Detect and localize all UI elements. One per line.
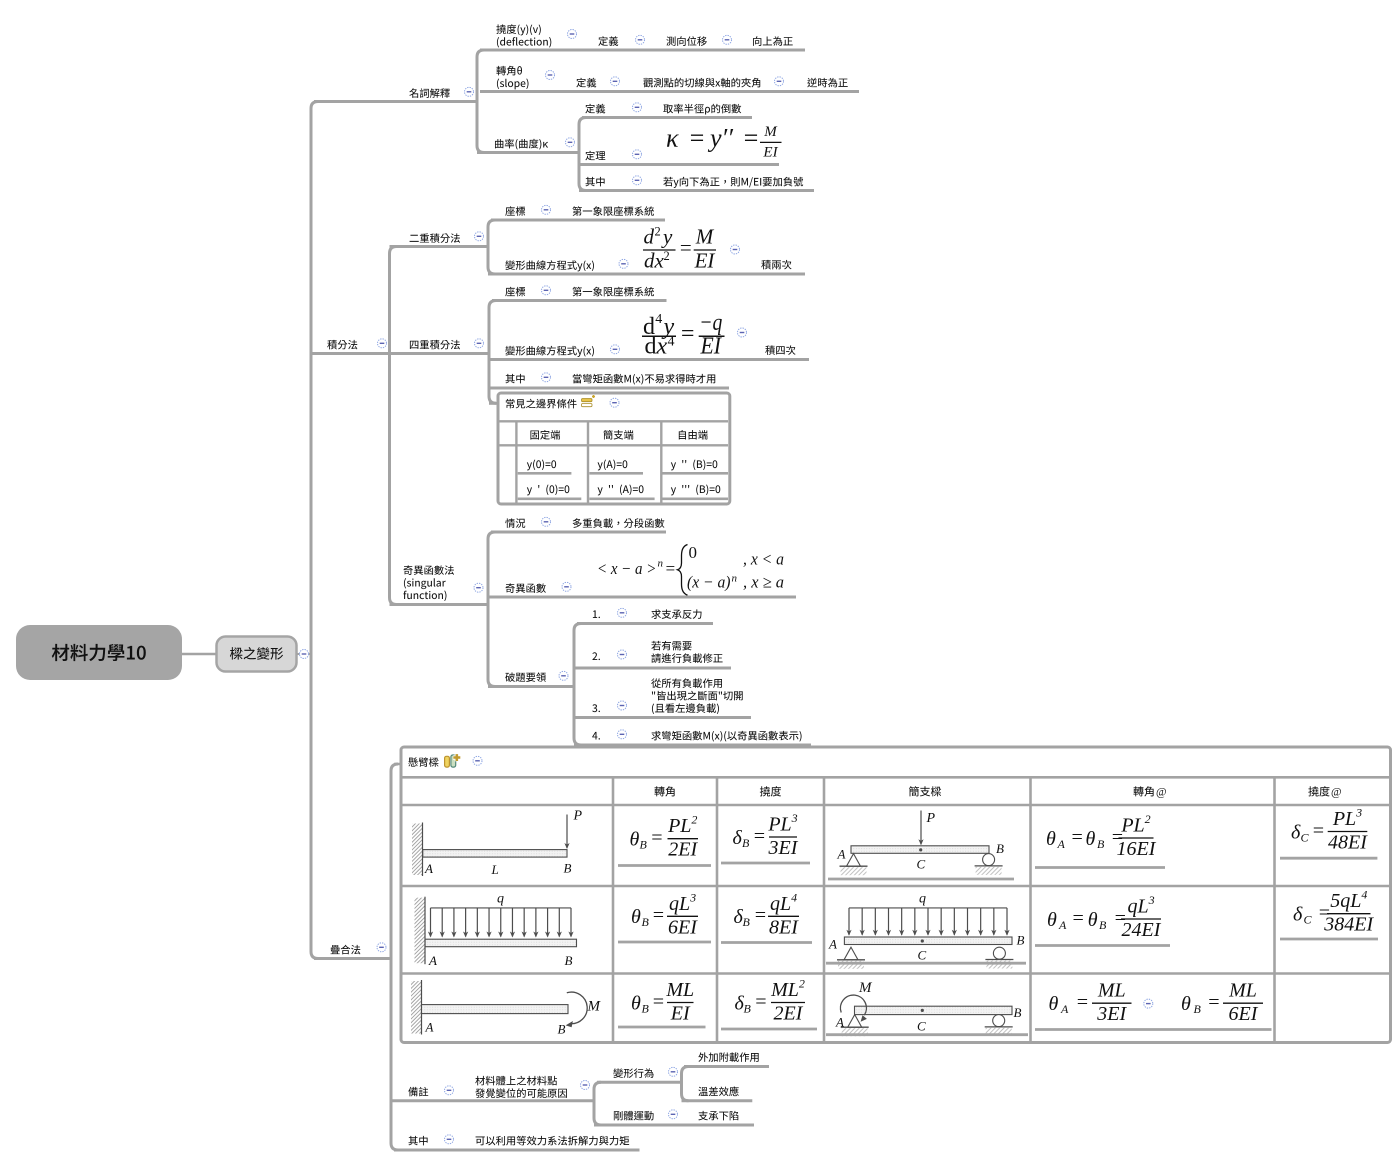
node y″(A)=0 [598,485,644,496]
wire underline ss-M row3 [826,1033,1028,1036]
svg-text:θ: θ [1049,993,1059,1015]
svg-text:B: B [1014,1005,1022,1020]
svg-text:24EI: 24EI [1122,919,1162,941]
collapse icon 座標2 [542,286,551,295]
node formula δB=ML²/2EI [735,977,806,1025]
collapse icon 座標1 [542,205,551,214]
svg-text:=: = [688,124,706,153]
svg-text:B: B [558,1022,566,1037]
wire bracket 奇異函數法 children [488,532,495,687]
svg-text:=: = [665,559,676,578]
svg-text:=: = [1207,992,1221,1014]
node 定理 [585,151,605,161]
wire underline 曲率 [477,151,579,154]
icon sticker 懸臂樑 [445,754,461,767]
collapse icon 備註 [445,1086,454,1095]
svg-text:q: q [919,892,926,907]
svg-text:δ: δ [1293,904,1303,926]
node 情況 [505,518,525,528]
collapse icon 其中2 [542,373,551,382]
svg-text:κ: κ [666,124,679,153]
collapse icon item2 [618,650,627,659]
node formula θA=ML/3EI [1049,980,1132,1025]
svg-text:EI: EI [700,334,722,360]
node 求支承反力 [651,609,701,619]
svg-text:θ: θ [630,829,640,851]
svg-text:M: M [763,124,778,140]
wire 樑之變形 to main trunk [297,653,311,655]
node 常見之邊界條件 box [498,393,730,504]
node 測向位移 [666,36,706,46]
node 可以利用等效力系法 [476,1136,630,1146]
node formula δB=PL³/3EI [733,811,799,859]
wire bracket 曲率 children [579,118,586,191]
svg-text:B: B [743,915,751,929]
svg-text:=: = [652,905,666,927]
wire underline 定義(曲率) [582,116,752,119]
svg-text:ML: ML [1228,980,1257,1002]
node header 撓度@ [1308,786,1329,796]
svg-text:d: d [644,248,655,272]
node header 簡支樑 [909,786,941,796]
wire underline 奇異函數 [488,596,796,599]
collapse icon formula1 [731,245,740,254]
svg-text:δ: δ [1291,821,1301,843]
diagram cantilever P row1 [412,809,583,878]
svg-text:=: = [1071,907,1085,929]
diagram cantilever M row3 [411,980,602,1037]
wire underline 座標1 [491,219,665,222]
node 溫差效應 [698,1086,738,1096]
collapse icon 撓度 [568,30,577,39]
svg-text:θ: θ [1088,909,1098,931]
node 定義2 [576,78,596,88]
node 奇異函數法 [404,565,454,575]
node formula δB=qL⁴/8EI [734,890,800,938]
collapse icon between θA θB row3 [1144,999,1153,1008]
wire bracket 備註 children [594,1082,601,1125]
wire underline 變形曲線方程式1 [488,273,805,276]
svg-text:A: A [428,953,437,968]
svg-text:B: B [640,838,648,852]
svg-text:C: C [1301,830,1310,844]
node header 轉角 [654,786,674,796]
node item2 [592,652,600,660]
svg-text:3EI: 3EI [768,837,799,859]
node 簡支端 [603,430,633,440]
svg-text:d: d [645,334,657,360]
node y″(B)=0 [671,460,717,471]
svg-text:=: = [1070,826,1084,848]
svg-text:8EI: 8EI [769,916,799,938]
svg-text:B: B [642,915,650,929]
svg-text:0: 0 [689,543,698,562]
node 奇異函數 [506,583,546,593]
node header 轉角@ [1133,786,1153,796]
node root 材料力學10 box [16,625,182,680]
node y(A)=0 [598,460,628,471]
svg-text:6EI: 6EI [1229,1003,1259,1025]
node 定義1 [598,36,618,46]
wire underline θAθB row2 [1035,944,1170,947]
svg-text:M: M [858,980,873,996]
node y(0)=0 [527,460,556,471]
svg-text:, x ≥ a: , x ≥ a [743,573,784,592]
wire underline ss-q row2 [826,962,1026,965]
collapse icon 奇異函數 [562,582,571,591]
svg-text:A: A [425,1020,434,1035]
wire underline y(A)=0 [589,472,643,475]
node y‴(B)=0 [671,485,720,496]
node 其中2 [505,374,524,383]
node 積兩次 [761,260,791,270]
collapse icon 剛體運動 [669,1110,678,1119]
node item1 [593,610,600,618]
svg-text:@: @ [1331,787,1342,799]
node 若有需要 [651,641,691,651]
collapse icon 觀測點 [775,77,784,86]
node 二重積分法 [410,233,460,243]
node 名詞解釋 [409,88,449,98]
wire underline 名詞解釋 [314,100,477,103]
collapse icon 變形行為 [669,1067,678,1076]
collapse icon item3 [618,701,627,710]
wire underline 奇異函數法 [390,603,489,606]
node 固定端 [530,430,560,440]
svg-text:q: q [497,892,504,907]
svg-text:n: n [658,558,664,570]
node 四重積分法 [410,340,460,350]
wire underline ss-P row1 [828,878,1014,881]
node formula κ=y″=M/EI [666,124,782,161]
collapse icon 曲率 [566,138,575,147]
node 若y向下為正 [663,177,803,188]
wire underline 破題要領 [488,685,574,688]
node 多重負載分段函數 [573,518,665,528]
svg-text:B: B [642,1001,650,1015]
collapse icon 轉角θ [546,71,555,80]
svg-text:θ: θ [1181,993,1191,1015]
wire 懸臂樑 box connector [394,763,401,766]
collapse icon item1 [618,608,627,617]
svg-text:B: B [565,953,573,968]
svg-text:θ: θ [631,906,641,928]
wire underline θAθB row1 [1035,866,1165,869]
svg-text:θ: θ [1047,909,1057,931]
svg-text:A: A [1057,837,1066,851]
node 定義3 [585,104,605,114]
wire underline y″(B)=0 [662,472,728,475]
svg-text:2EI: 2EI [668,839,698,861]
wire underline y″(A)=0 [589,497,654,500]
wire bracket 變形行為 children [682,1067,689,1101]
collapse icon 其中3 [445,1135,454,1144]
node formula d⁴y/dx⁴=-q/EI [642,310,725,360]
node 外加附載作用 [698,1052,758,1062]
svg-text:A: A [1060,1002,1069,1016]
svg-text:B: B [742,836,750,850]
wire underline 破題2 [574,667,731,670]
node 變形曲線方程式y(x)1 [505,260,594,271]
collapse icon 樑之變形 [300,650,309,659]
svg-text:d: d [644,225,655,249]
node formula θB=PL²/2EI [630,813,699,861]
svg-text:P: P [926,811,936,826]
wire underline 情況 [491,531,666,534]
collapse icon item4 [618,730,627,739]
node 自由端 [679,430,708,440]
svg-text:EI: EI [762,144,778,160]
node 曲率 [495,139,548,150]
wire underline 其中(bottom) [394,1149,640,1152]
boundary table grid [499,421,728,502]
svg-text:, x < a: , x < a [743,550,784,569]
collapse icon 破題要領 [559,671,568,680]
node 積分法 [327,340,357,350]
svg-text:θ: θ [1086,828,1096,850]
svg-text:−q: −q [699,310,722,336]
wire underline 破題3 [574,716,751,719]
wire underline θA θB row3 [1035,1028,1272,1031]
svg-text:4: 4 [668,335,675,350]
collapse icon 常見之邊界條件 [610,398,619,407]
wire underline y(0)=0 [518,472,572,475]
collapse icon 奇異函數法 [474,583,483,592]
wire underline 其中(四重) [489,387,729,390]
svg-text:ML: ML [665,979,694,1001]
wire underline 撓度 row [480,49,805,52]
wire underline 轉角 row [480,90,859,93]
wire underline 變形行為 [597,1081,682,1084]
svg-text:B: B [1097,837,1105,851]
svg-text:=: = [754,905,768,927]
svg-text:x: x [656,334,668,360]
svg-text:B: B [1099,918,1107,932]
svg-text:16EI: 16EI [1117,838,1157,860]
wire underline 溫差效應 [682,1099,753,1102]
wire underline 變形曲線方程式2 [489,358,809,361]
svg-text:C: C [918,948,927,963]
svg-text:=: = [753,825,767,847]
node formula θB=ML/EI [631,979,694,1025]
svg-text:B: B [1017,932,1025,947]
node 撓度 [496,24,541,35]
node 從所有負載作用 [651,678,722,688]
svg-text:B: B [564,861,572,876]
diagram simply-supported P row1 [837,811,1005,876]
svg-text:384EI: 384EI [1323,914,1374,936]
svg-text:A: A [424,861,433,876]
collapse icon 其中1 [633,176,642,185]
svg-text:< x − a >: < x − a > [597,559,656,578]
svg-text:@: @ [1156,787,1167,799]
wire underline 外加附載作用 [684,1065,769,1068]
node formula θA=θB=PL²/16EI [1046,812,1157,860]
svg-text:3EI: 3EI [1096,1003,1127,1025]
wire underline θB row3 [618,1026,706,1029]
svg-text:4: 4 [655,312,662,327]
node item3 [592,704,600,712]
node formula δC=PL³/48EI [1291,806,1368,854]
svg-text:EI: EI [670,1003,691,1025]
node 材料體上之材料點 [475,1076,557,1086]
svg-text:(x − a): (x − a) [687,573,731,592]
wire underline θB row2 [618,941,711,944]
svg-text:A: A [828,937,837,952]
node 其中1 [585,177,604,186]
svg-text:M: M [695,225,715,249]
wire underline 座標2 [492,299,667,302]
wire underline 破題1 [577,622,713,625]
wire underline y'(0)=0 [518,497,582,500]
svg-text:2: 2 [664,249,670,263]
svg-text:n: n [732,573,738,585]
node 積四次 [765,345,795,355]
collapse icon 懸臂樑 [473,756,482,765]
node 當彎矩函數M(x)不易求得時才用 [573,374,715,385]
collapse icon 四重積分法 [475,339,484,348]
collapse icon 測向位移 [723,35,732,44]
svg-text:C: C [1304,913,1313,927]
node 取率半徑的倒數 [663,104,741,115]
node formula θA=θB=qL³/24EI [1047,893,1162,941]
node 備註 [408,1087,428,1097]
svg-text:ML: ML [1097,980,1126,1002]
wire bracket 積分法 children [390,247,397,605]
collapse icon 材料體 [581,1081,590,1090]
node 懸臂樑 box [401,747,1391,1043]
node header 撓度 [760,786,781,796]
svg-text:=: = [679,236,693,260]
node 向上為正 [753,36,793,46]
svg-text:B: B [996,841,1004,856]
wire underline δB row2 [721,941,812,944]
collapse icon 積分法 [378,339,387,348]
wire underline 積分法/四重積分法 [311,352,489,355]
svg-text:6EI: 6EI [668,916,698,938]
node formula θB=ML/6EI [1181,980,1263,1025]
wire bracket 名詞解釋 children [477,50,484,153]
node 懸臂樑 [408,757,438,767]
svg-text:=: = [652,991,666,1013]
node 第一象限座標系統1 [572,206,654,216]
big table grid [402,777,1389,1042]
node 支承下陷 [698,1111,738,1121]
svg-text:L: L [491,862,499,877]
node 座標1 [505,206,525,216]
wire underline y‴(B)=0 [662,497,728,500]
wire main trunk vertical [311,102,318,959]
node 第一象限座標系統2 [572,287,654,297]
node 剛體運動 [614,1111,654,1121]
svg-text:B: B [744,1001,752,1015]
wire underline δC row2 [1280,938,1378,941]
collapse icon 定義3 [633,103,642,112]
svg-text:=: = [650,827,664,849]
node 求彎矩函數 [651,731,801,742]
node y'(0)=0 [527,485,570,496]
wire underline 疊合法 [314,957,391,960]
node formula singular function [597,543,784,595]
diagram simply-supported q row2 [828,892,1025,969]
collapse icon 定理 [633,150,642,159]
node formula δC=5qL⁴/384EI [1293,888,1375,936]
svg-text:y′′: y′′ [707,124,733,153]
svg-text:δ: δ [733,827,743,849]
wire underline δB row1 [721,862,810,865]
svg-text:C: C [917,857,926,872]
collapse icon 定義2 [611,77,620,86]
collapse icon 疊合法 [377,943,386,952]
node 疊合法 [331,945,361,955]
node 觀測點的切線與x軸的夾角 [643,78,760,88]
node 座標2 [505,287,525,297]
node 變形曲線方程式y(x)2 [505,346,594,357]
collapse icon 二重積分法 [475,232,484,241]
node 破題要領 [505,672,546,682]
wire underline 二重積分法 [390,245,489,248]
svg-text:EI: EI [694,248,716,272]
svg-text:M: M [587,999,602,1015]
wire bracket 疊合法 children [391,764,398,1150]
svg-text:=: = [1312,820,1326,842]
diagram cantilever q row2 [415,892,577,969]
wire underline θB row1 [618,864,711,867]
wire underline 其中(曲率) [579,189,814,192]
wire root to 樑之變形 [182,653,216,656]
svg-text:y: y [661,225,673,249]
svg-text:=: = [742,124,760,153]
node 其中3 [408,1136,427,1145]
svg-text:θ: θ [1046,828,1056,850]
collapse icon 情況 [542,517,551,526]
node formula d²y/dx²=M/EI [643,225,716,273]
wire 常見之邊界條件 box connector [489,402,497,405]
svg-text:B: B [1194,1002,1202,1016]
icon sticker 常見之邊界條件 [582,395,596,407]
node 逆時為正 [807,78,847,88]
node 樑之變形 box [217,637,297,672]
wire underline 剛體運動/支承下陷 [594,1124,754,1127]
svg-text:=: = [754,991,768,1013]
svg-text:P: P [573,809,583,824]
node item4 [592,732,600,740]
node 變形行為 [613,1068,653,1078]
svg-text:A: A [837,847,846,862]
wire underline 破題4 [574,744,811,747]
svg-text:θ: θ [631,992,641,1014]
wire underline δB row3 [721,1028,817,1031]
svg-text:C: C [917,1019,926,1034]
collapse icon 變形曲線1 [619,259,628,268]
svg-text:2EI: 2EI [774,1003,804,1025]
wire bracket 二重積分法 children [488,220,495,274]
svg-text:=: = [1076,992,1090,1014]
svg-text:48EI: 48EI [1328,832,1368,854]
svg-text:A: A [1058,918,1067,932]
wire bracket 四重積分法 children [489,301,496,404]
svg-text:=: = [679,321,695,347]
diagram simply-supported M row3 [835,980,1022,1036]
collapse icon 變形曲線2 [611,345,620,354]
wire underline δC row1 [1280,857,1377,860]
node 轉角θ [496,66,522,76]
collapse icon formula2 [738,328,747,337]
collapse icon 定義1 [636,35,645,44]
node formula θB=qL³/6EI [631,890,698,938]
wire underline 備註/材料體 [391,1099,594,1102]
wire bracket 破題要領 children [574,624,581,746]
